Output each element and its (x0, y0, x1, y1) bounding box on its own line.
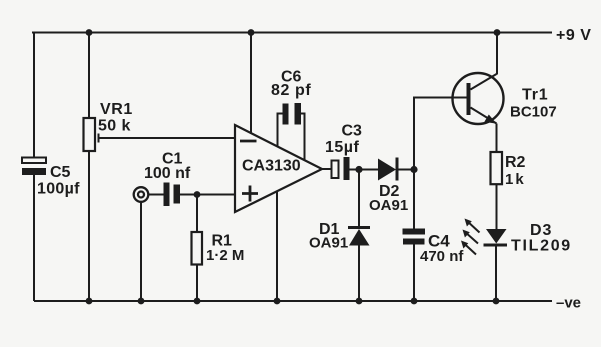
wire C5 to -ve rail (33, 175, 35, 301)
+9V power rail (32, 32, 552, 34)
potentiometer VR1 (84, 118, 96, 151)
svg-text:1k: 1k (505, 171, 526, 188)
wire junction to R1 (196, 195, 198, 233)
wire D2 to junction (399, 169, 415, 171)
wire R1 to -ve rail (196, 265, 198, 302)
svg-text:VR1: VR1 (100, 101, 133, 118)
input jack socket (134, 187, 149, 202)
resistor R2 (491, 152, 503, 184)
svg-text:+9 V: +9 V (556, 27, 591, 44)
wire C6 right to op-amp comp pin (300, 114, 305, 161)
junction node C1/R1 (194, 191, 201, 198)
wire junction down to C4 (413, 170, 415, 229)
svg-text:BC107: BC107 (510, 104, 557, 121)
junction dot -ve/D1 (356, 298, 363, 305)
capacitor C4 (403, 229, 426, 245)
wire op-amp comp pin to C6 left (278, 114, 284, 148)
wire C3 to D2 (350, 169, 379, 171)
svg-text:OA91: OA91 (309, 235, 348, 252)
junction node C3/D1 (355, 166, 362, 173)
capacitor C1 (164, 183, 181, 207)
junction dot -ve/R1 (194, 298, 201, 305)
svg-text:C3: C3 (342, 123, 363, 140)
wire +9V rail to collector (496, 33, 498, 75)
wire junction up to transistor base (414, 98, 467, 170)
diode D1 (348, 226, 370, 246)
capacitor C6 (283, 103, 302, 125)
wire jack to C1 (149, 194, 164, 196)
wire +9V rail to op-amp supply pin (250, 33, 252, 135)
svg-text:100µf: 100µf (37, 181, 80, 198)
op-amp U1 CA3130 (235, 125, 322, 212)
wire VR1 to -ve rail (88, 151, 90, 301)
junction dot -ve/D3 (493, 298, 500, 305)
svg-text:1·2 M: 1·2 M (206, 247, 244, 264)
capacitor C3 (332, 157, 350, 180)
wire D1 to -ve rail (358, 246, 360, 302)
wire C4 to -ve rail (413, 245, 415, 302)
svg-text:50 k: 50 k (98, 118, 131, 135)
wire D3 to -ve rail (495, 247, 497, 302)
svg-text:–ve: –ve (556, 295, 581, 312)
wire jack to -ve rail (140, 202, 142, 302)
junction node D2/C4/base (410, 166, 417, 173)
svg-text:C5: C5 (50, 164, 71, 181)
wire +9V rail to VR1 (88, 33, 90, 119)
svg-text:TIL209: TIL209 (511, 238, 572, 255)
svg-text:100 nf: 100 nf (144, 165, 191, 182)
wire VR1 wiper to op-amp inverting input (99, 134, 236, 143)
diode D2 (378, 158, 399, 181)
svg-text:470 nf: 470 nf (420, 248, 464, 265)
LED D3 (484, 229, 508, 247)
svg-text:82 pf: 82 pf (271, 82, 311, 99)
wire op-amp output to C3 (322, 168, 332, 170)
svg-text:CA3130: CA3130 (242, 158, 301, 175)
junction dot -ve/C4 (411, 298, 418, 305)
junction dot -ve/VR1 (86, 298, 93, 305)
resistor R1 (192, 232, 203, 265)
junction dot -ve/op-amp (274, 298, 281, 305)
junction dot rail/collector (494, 29, 501, 36)
svg-text:OA91: OA91 (369, 197, 408, 214)
wire C1 to op-amp non-inverting input (180, 194, 235, 196)
capacitor C5 (22, 158, 46, 176)
LED emission arrows (461, 219, 480, 255)
svg-text:R2: R2 (505, 154, 526, 171)
junction dot -ve/jack (138, 298, 145, 305)
svg-text:Tr1: Tr1 (522, 87, 548, 104)
svg-text:15µf: 15µf (325, 139, 360, 156)
wire emitter to R2 (496, 124, 498, 153)
junction dot rail/VR1 top (86, 29, 93, 36)
wire op-amp negative supply pin to -ve rail (276, 192, 278, 302)
transistor Q1 Tr1 (453, 73, 504, 124)
-ve power rail (34, 300, 552, 302)
wire left vertical from +9V rail to C5 (33, 33, 35, 159)
wire R2 to D3 (496, 184, 498, 229)
junction dot rail/op-amp supply (248, 29, 255, 36)
svg-text:D3: D3 (530, 222, 552, 239)
wire C3 junction down to D1 (358, 170, 360, 227)
